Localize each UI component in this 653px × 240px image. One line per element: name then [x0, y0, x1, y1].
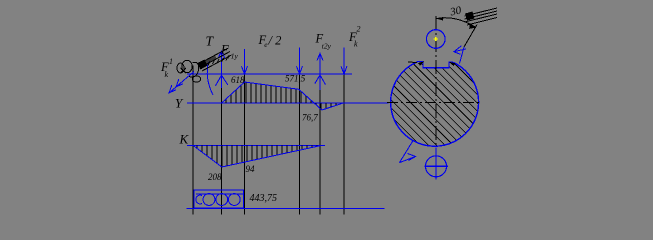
- svg-text:571,5: 571,5: [285, 74, 306, 84]
- svg-text:1: 1: [169, 57, 173, 66]
- wire station line 6 (x=344): [343, 74, 345, 214]
- force symbol circle (dot) above keyway: [427, 30, 446, 49]
- node K bending moment diagram hatch: [197, 145, 317, 168]
- svg-text:94: 94: [246, 164, 256, 174]
- node torque diagram circular hatch: [196, 194, 240, 206]
- arrow rotation lower-left of circle: [399, 141, 415, 163]
- arrow force Fk1 down-left at shaft end: [169, 72, 194, 94]
- dimension 30 arc with arrows: [437, 18, 477, 28]
- center line horizontal: [387, 102, 481, 104]
- arrow force Ft2y up (x=320): [315, 53, 326, 90]
- node Y bending moment diagram outline: [222, 82, 344, 110]
- node Y bending moment diagram hatch: [226, 78, 341, 115]
- svg-text:k: k: [165, 70, 169, 79]
- yellow center mark: [434, 37, 438, 41]
- svg-text:618: 618: [231, 75, 245, 85]
- svg-text:t2y: t2y: [322, 42, 332, 51]
- svg-text:/ 2: / 2: [268, 34, 282, 48]
- shaft cross-section hatch: [388, 57, 480, 149]
- wire shaft axis top line: [188, 73, 352, 75]
- svg-text:443,75: 443,75: [250, 193, 278, 204]
- node torque diagram inner top line: [196, 193, 243, 195]
- belt band at shaft end: [198, 48, 232, 71]
- svg-text:76,7: 76,7: [302, 113, 318, 123]
- wire station line 5 (x=320): [319, 74, 321, 214]
- keyway width dimension arrowheads: [418, 61, 424, 66]
- center line vertical: [435, 16, 437, 146]
- svg-text:2: 2: [357, 25, 361, 34]
- svg-text:208: 208: [208, 172, 222, 182]
- torque T arc: [207, 62, 213, 95]
- belt band top right: [465, 8, 498, 25]
- svg-text:K: K: [179, 131, 190, 146]
- force symbol circle (cross) below: [426, 156, 447, 177]
- svg-text:r1y: r1y: [228, 52, 239, 61]
- node torque diagram box: [194, 190, 244, 208]
- svg-text:k: k: [354, 40, 358, 49]
- wire bottom line: [187, 207, 384, 209]
- wire station line 2 (x=221.5): [221, 74, 223, 214]
- arrow force Fr1y up (x=221.5): [216, 51, 228, 88]
- belt band inner shading: [204, 56, 217, 65]
- node K bending moment diagram outline: [193, 145, 322, 167]
- dimension extension slanted line: [464, 25, 477, 48]
- pulley sketch at shaft end: [177, 60, 201, 82]
- wire station line 4 (x=299.5): [299, 74, 301, 214]
- belt band filled left end: [465, 12, 475, 21]
- arrow force Fe/2 down (x=244.5): [242, 49, 248, 74]
- belt band filled left end: [198, 60, 208, 70]
- wire station line 1 (x=193): [192, 66, 194, 214]
- wire station line 3 (x=244.5): [244, 74, 246, 214]
- arrow force Fk2 down (x=344): [341, 48, 347, 75]
- wire K diagram baseline: [188, 144, 325, 146]
- wire Y diagram baseline: [188, 102, 389, 104]
- shaft cross-section circle with keyway: [391, 62, 479, 147]
- arrow force down (x=299.5): [297, 48, 303, 75]
- arrow force into keyway: [454, 46, 466, 55]
